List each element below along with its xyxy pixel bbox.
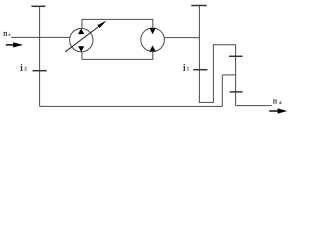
gear tick i2 [33,70,47,72]
motor flow triangle top [150,28,156,34]
shaft cap (top of output gear shaft) [191,5,207,7]
label n_e (input speed) [3,32,10,36]
wire: jog link [222,74,235,76]
label n_a (output speed) [273,100,281,105]
motor M (fixed displacement) [141,28,165,52]
gear tick lower on output shaft [230,91,243,93]
label i1 (gear ratio) [183,64,189,71]
variable-displacement arrow through pump [65,21,106,52]
hydraulic line bottom [82,51,153,59]
pump flow triangle bottom [78,46,84,52]
wire: mechanical branch riser [221,75,223,107]
input arrow n_e [6,42,23,47]
wire: mechanical branch bottom rail [40,105,223,107]
pump P (variable displacement) [70,28,93,51]
wire: link from output gear shaft to summation shaft [199,101,214,103]
gear tick i1 [193,69,207,71]
wire: summation shaft left vertical [212,45,214,103]
hydraulic line top [82,19,153,28]
gear tick upper on output shaft [229,55,243,57]
label i2 (gear ratio) [20,64,26,71]
wire: summation shaft top [213,44,236,46]
wire: input shaft [11,36,70,38]
wire: output line to n_a [236,105,272,107]
wire: output shaft vertical [235,45,237,106]
output arrow n_a [269,108,287,113]
wire: output gear shaft vertical [198,6,200,103]
motor flow triangle bottom [150,45,156,51]
wire: motor output shaft [164,37,199,39]
pump flow triangle top [78,29,84,35]
wire: input gear shaft vertical [39,6,41,106]
shaft cap (top of input gear shaft) [31,5,45,7]
